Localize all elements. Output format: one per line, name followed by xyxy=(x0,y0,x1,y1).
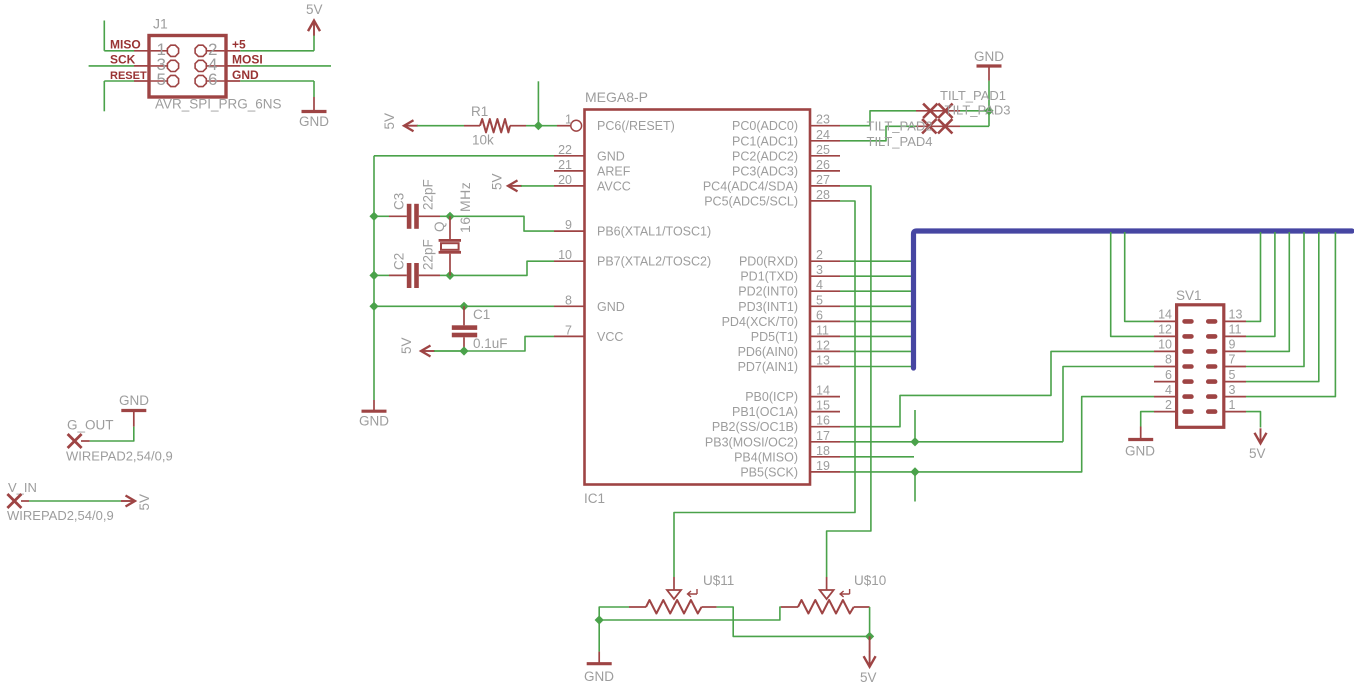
svg-text:20: 20 xyxy=(558,173,572,187)
wire C3 left xyxy=(374,215,389,217)
supply 5V arrow right V_IN xyxy=(126,496,136,507)
svg-text:C2: C2 xyxy=(392,253,407,270)
trimmer U$10 xyxy=(781,606,798,608)
junction dot C1 top xyxy=(459,302,468,311)
wire SV1 pin2 to gnd xyxy=(1141,412,1154,427)
svg-text:SV1: SV1 xyxy=(1176,288,1202,303)
trimmer U$11 xyxy=(629,606,646,608)
wire MISO horizontal xyxy=(104,50,134,52)
svg-text:5V: 5V xyxy=(306,2,323,17)
svg-text:GND: GND xyxy=(359,414,389,429)
svg-text:PD1(TXD): PD1(TXD) xyxy=(740,270,798,284)
svg-text:TILT_PAD3: TILT_PAD3 xyxy=(945,103,1011,118)
bus tap to SV1 pin12 xyxy=(1111,232,1154,336)
svg-text:Q: Q xyxy=(432,221,447,232)
svg-text:15: 15 xyxy=(816,399,830,413)
svg-text:9: 9 xyxy=(1229,338,1236,352)
wire pin22 GND horizontal xyxy=(374,155,554,157)
SV1 pin 14 stub xyxy=(1154,320,1177,322)
svg-text:5V: 5V xyxy=(1249,446,1266,461)
SV1 pin 5 stub xyxy=(1224,381,1246,383)
capacitor C1 xyxy=(463,306,465,325)
svg-text:V_IN: V_IN xyxy=(8,480,37,495)
wire U$10 right down xyxy=(869,607,871,636)
wire pin17 horizontal xyxy=(840,441,1063,443)
wire pin27 to U$10 wiper xyxy=(827,186,871,577)
ground symbol near J1 xyxy=(313,97,315,110)
svg-text:PC5(ADC5/SCL): PC5(ADC5/SCL) xyxy=(704,194,798,208)
svg-text:PB4(MISO): PB4(MISO) xyxy=(734,450,798,464)
J1 internal pin lines xyxy=(151,51,225,81)
svg-text:R1: R1 xyxy=(471,104,488,119)
svg-text:28: 28 xyxy=(816,188,830,202)
svg-text:TILT_PAD2: TILT_PAD2 xyxy=(867,119,933,134)
IC pin 15 stub xyxy=(810,411,840,413)
IC pin 21 stub xyxy=(554,170,584,172)
svg-text:5V: 5V xyxy=(860,670,877,685)
svg-text:0.1uF: 0.1uF xyxy=(473,336,508,351)
supply 5V arrow below C1 xyxy=(421,346,431,357)
svg-text:PC1(ADC1): PC1(ADC1) xyxy=(732,134,798,148)
svg-text:3: 3 xyxy=(816,263,823,277)
svg-text:6: 6 xyxy=(1165,368,1172,382)
wire G_OUT to gnd xyxy=(90,427,134,441)
SV1 pin 13 stub xyxy=(1224,320,1246,322)
IC pin 27 stub xyxy=(810,185,840,187)
svg-text:11: 11 xyxy=(816,323,829,337)
SV1 pin 8 stub xyxy=(1154,366,1177,368)
svg-text:4: 4 xyxy=(816,278,823,292)
svg-text:PB1(OC1A): PB1(OC1A) xyxy=(732,405,798,419)
svg-text:22: 22 xyxy=(558,143,572,157)
svg-text:2: 2 xyxy=(816,248,823,262)
svg-text:26: 26 xyxy=(816,158,830,172)
SV1 pads row 7 xyxy=(1182,409,1193,414)
junction dot pin19 xyxy=(910,467,919,476)
wire pin19 to SV1 pin4 xyxy=(840,397,1154,472)
SV1 pin 10 stub xyxy=(1154,350,1177,352)
IC pin 26 stub xyxy=(810,170,840,172)
SV1 pads row 4 xyxy=(1182,364,1193,369)
wire U$11 left to gnd xyxy=(599,607,629,652)
svg-text:GND: GND xyxy=(232,68,259,82)
svg-text:PD6(AIN0): PD6(AIN0) xyxy=(738,345,798,359)
svg-text:10: 10 xyxy=(558,248,572,262)
SV1 pads row 6 xyxy=(1182,394,1193,399)
wirepad TILT_PAD3 xyxy=(938,104,952,118)
bus tap to SV1 pin3 xyxy=(1246,232,1335,397)
wire stub below pin19 dot xyxy=(914,472,916,502)
wire C2 left xyxy=(374,274,389,276)
ground symbol above tilt pads (inverted) xyxy=(988,66,990,81)
J1 pin2 stub xyxy=(224,50,240,52)
junction dot C2 row xyxy=(369,271,378,280)
svg-text:GND: GND xyxy=(1125,444,1155,459)
svg-text:PB5(SCK): PB5(SCK) xyxy=(740,465,798,479)
IC pin 23 stub xyxy=(810,125,840,127)
svg-text:11: 11 xyxy=(1229,323,1242,337)
wire RESET vertical xyxy=(103,81,105,111)
svg-text:TILT_PAD1: TILT_PAD1 xyxy=(940,88,1006,103)
wire pin 4 to bus xyxy=(840,290,912,292)
ground symbol G_OUT (inverted) xyxy=(133,411,135,427)
wire SV1 pin1 to 5V xyxy=(1246,412,1261,428)
svg-text:WIREPAD2,54/0,9: WIREPAD2,54/0,9 xyxy=(66,449,173,464)
wire tilt row1 to gnd node xyxy=(960,110,989,112)
svg-text:12: 12 xyxy=(816,338,830,352)
wire SCK long horizontal xyxy=(89,65,134,67)
IC pin 5 stub xyxy=(810,305,840,307)
bus tap to SV1 pin14 xyxy=(1125,232,1154,321)
wirepad TILT_PAD4 xyxy=(938,119,952,133)
wire pin 2 to bus xyxy=(840,260,912,262)
SV1 pads row 1 xyxy=(1182,319,1193,324)
wire 5V to R1 xyxy=(417,125,464,127)
wire 5V row to pin7 xyxy=(434,336,554,351)
svg-text:PD0(RXD): PD0(RXD) xyxy=(739,255,798,269)
svg-text:GND: GND xyxy=(299,114,329,129)
wire C3 to crystal node xyxy=(440,215,450,217)
IC pin 19 stub xyxy=(810,471,840,473)
ground symbol below U$11 xyxy=(598,652,600,663)
tilt pad row2 red segment xyxy=(916,125,960,127)
wire 5V to pin20 AVCC xyxy=(521,185,554,187)
ground symbol below SV1 xyxy=(1140,427,1142,439)
svg-text:SCK: SCK xyxy=(110,53,136,67)
IC pin 1 stub with inversion circle xyxy=(557,125,570,127)
svg-text:9: 9 xyxy=(565,218,572,232)
IC pin 11 stub xyxy=(810,335,840,337)
IC left pin names xyxy=(597,119,711,344)
bus tap to SV1 pin11 xyxy=(1246,232,1275,336)
svg-text:PD4(XCK/T0): PD4(XCK/T0) xyxy=(722,315,798,329)
wire pin8 GND row xyxy=(374,305,554,307)
svg-text:IC1: IC1 xyxy=(584,491,605,506)
svg-text:5: 5 xyxy=(816,293,823,307)
IC pin 2 stub xyxy=(810,260,840,262)
wire +5 to 5V supply xyxy=(240,50,314,52)
svg-text:GND: GND xyxy=(119,393,149,408)
svg-text:13: 13 xyxy=(1229,308,1243,322)
svg-text:PC0(ADC0): PC0(ADC0) xyxy=(732,119,798,133)
IC pin 3 stub xyxy=(810,275,840,277)
SV1 pin 7 stub xyxy=(1224,366,1246,368)
svg-text:GND: GND xyxy=(597,149,625,163)
wire pin 6 to bus xyxy=(840,320,912,322)
wire vertical above R1 junction xyxy=(537,81,539,125)
svg-text:14: 14 xyxy=(816,384,830,398)
svg-text:MEGA8-P: MEGA8-P xyxy=(585,89,648,105)
svg-text:GND: GND xyxy=(597,300,625,314)
IC pin 10 stub xyxy=(554,260,584,262)
svg-text:AVR_SPI_PRG_6NS: AVR_SPI_PRG_6NS xyxy=(155,97,282,112)
IC pin 20 stub xyxy=(554,185,584,187)
bus tap to SV1 pin5 xyxy=(1246,232,1319,382)
svg-text:25: 25 xyxy=(816,143,830,157)
svg-text:+5: +5 xyxy=(232,38,246,52)
wire SV1 pin8 link xyxy=(1063,367,1154,442)
wire stub above pin17 dot xyxy=(914,410,916,442)
svg-text:PD3(INT1): PD3(INT1) xyxy=(738,300,798,314)
svg-text:RESET: RESET xyxy=(110,70,147,82)
tilt pad row1 red segment xyxy=(916,110,960,112)
wire pin 12 to bus xyxy=(840,350,912,352)
svg-text:24: 24 xyxy=(816,128,830,142)
svg-text:17: 17 xyxy=(816,429,830,443)
junction dot C3 row xyxy=(369,212,378,221)
svg-text:22pF: 22pF xyxy=(421,239,436,270)
wire pin28 to U$11 wiper xyxy=(674,201,855,577)
wire R1 to pin1 xyxy=(526,125,557,127)
IC pin 6 stub xyxy=(810,320,840,322)
crystal Q xyxy=(449,216,451,239)
svg-text:C1: C1 xyxy=(473,307,490,322)
wirepad V_IN pad xyxy=(7,494,21,508)
J1 pin6 stub xyxy=(224,80,240,82)
wire GND row to gnd symbol xyxy=(240,80,314,82)
svg-text:AVCC: AVCC xyxy=(597,179,631,193)
svg-text:U$10: U$10 xyxy=(854,573,886,588)
junction dot reset net xyxy=(534,121,543,130)
svg-text:PD2(INT0): PD2(INT0) xyxy=(738,285,798,299)
svg-text:GND: GND xyxy=(974,49,1004,64)
svg-text:5V: 5V xyxy=(399,337,414,354)
junction dot C1 bottom xyxy=(459,346,468,355)
wire U$11 right to 5V node xyxy=(717,607,870,636)
svg-text:G_OUT: G_OUT xyxy=(67,418,114,433)
svg-text:PC6(/RESET): PC6(/RESET) xyxy=(597,119,675,133)
junction dot pin17 xyxy=(910,437,919,446)
svg-text:VCC: VCC xyxy=(597,330,623,344)
bus tap to SV1 pin7 xyxy=(1246,232,1304,367)
resistor R1 xyxy=(464,125,480,127)
svg-text:3: 3 xyxy=(1229,383,1236,397)
wire pin18 stub xyxy=(840,456,914,458)
svg-text:8: 8 xyxy=(1165,353,1172,367)
wire MISO vertical xyxy=(103,21,105,51)
svg-text:PD5(T1): PD5(T1) xyxy=(751,330,798,344)
wire xtal2 to pin10 xyxy=(450,261,554,275)
svg-text:12: 12 xyxy=(1158,323,1172,337)
svg-text:6: 6 xyxy=(816,308,823,322)
wire pin16 to SV1 pin10 xyxy=(840,351,1154,426)
IC pin 16 stub xyxy=(810,426,840,428)
wire RESET horizontal xyxy=(104,80,134,82)
wire pin 11 to bus xyxy=(840,335,912,337)
svg-text:7: 7 xyxy=(1229,353,1236,367)
svg-text:6: 6 xyxy=(208,70,217,89)
wire C2 to crystal node xyxy=(440,274,450,276)
svg-text:C3: C3 xyxy=(392,193,407,210)
svg-text:13: 13 xyxy=(816,354,830,368)
wire gnd drop tilt xyxy=(988,81,990,111)
J1 pin numbers 1-6 xyxy=(157,40,218,89)
wire V_IN to 5V xyxy=(29,500,121,502)
SV1 pads row 2 xyxy=(1182,334,1193,339)
SV1 pin 6 stub xyxy=(1154,381,1177,383)
svg-text:J1: J1 xyxy=(153,16,168,32)
SV1 pin 3 stub xyxy=(1224,396,1246,398)
wire pin23 to tilt pads xyxy=(840,111,916,126)
bus wire blue xyxy=(914,231,1353,368)
wire GND left rail vertical xyxy=(373,156,375,400)
junction dot crystal top xyxy=(445,212,454,221)
svg-text:MISO: MISO xyxy=(110,38,141,52)
svg-text:5V: 5V xyxy=(382,113,397,130)
svg-text:21: 21 xyxy=(558,158,572,172)
IC pin 9 stub xyxy=(554,230,584,232)
svg-text:4: 4 xyxy=(1165,383,1172,397)
svg-text:5: 5 xyxy=(157,70,166,89)
svg-text:23: 23 xyxy=(816,113,830,127)
svg-text:10: 10 xyxy=(1158,338,1172,352)
wire pin 3 to bus xyxy=(840,275,912,277)
svg-text:7: 7 xyxy=(565,323,572,337)
SV1 pin 1 stub xyxy=(1224,411,1246,413)
svg-text:PB7(XTAL2/TOSC2): PB7(XTAL2/TOSC2) xyxy=(597,255,711,269)
connector J1 AVR_SPI_PRG_6NS body xyxy=(149,36,226,98)
wirepad G_OUT pad xyxy=(81,440,90,442)
svg-text:10k: 10k xyxy=(472,133,494,148)
IC pin 12 stub xyxy=(810,350,840,352)
junction dot pot gnd xyxy=(595,615,604,624)
svg-text:PB6(XTAL1/TOSC1): PB6(XTAL1/TOSC1) xyxy=(597,225,711,239)
supply 5V arrow top xyxy=(308,21,320,32)
svg-text:PD7(AIN1): PD7(AIN1) xyxy=(738,360,798,374)
J1 pin4 stub xyxy=(224,65,240,67)
J1 pin5 stub xyxy=(134,80,151,82)
junction dot tilt gnd xyxy=(984,106,993,115)
IC pin 25 stub xyxy=(810,155,840,157)
SV1 pin 2 stub xyxy=(1154,411,1177,413)
wire tilt row2 to gnd node xyxy=(960,125,989,127)
svg-text:16 MHz: 16 MHz xyxy=(457,182,473,233)
svg-text:27: 27 xyxy=(816,173,830,187)
svg-text:19: 19 xyxy=(816,459,830,473)
SV1 pads row 5 xyxy=(1182,379,1193,384)
supply 5V arrow left of R1 xyxy=(404,120,414,131)
svg-text:2: 2 xyxy=(1165,398,1172,412)
svg-text:TILT_PAD4: TILT_PAD4 xyxy=(867,134,933,149)
svg-text:5V: 5V xyxy=(490,173,505,190)
svg-text:16: 16 xyxy=(816,414,830,428)
svg-text:WIREPAD2,54/0,9: WIREPAD2,54/0,9 xyxy=(7,508,114,523)
wire pot gnd to U$10 left xyxy=(599,607,781,620)
svg-text:AREF: AREF xyxy=(597,164,631,178)
IC pin 17 stub xyxy=(810,441,840,443)
IC pin 18 stub xyxy=(810,456,840,458)
svg-text:1: 1 xyxy=(565,113,572,127)
svg-text:1: 1 xyxy=(1229,398,1236,412)
IC pin 22 stub xyxy=(554,155,584,157)
svg-text:PB2(SS/OC1B): PB2(SS/OC1B) xyxy=(712,420,798,434)
svg-text:PC4(ADC4/SDA): PC4(ADC4/SDA) xyxy=(703,179,798,193)
svg-text:8: 8 xyxy=(565,293,572,307)
junction dot pin8 row xyxy=(369,302,378,311)
svg-text:PC2(ADC2): PC2(ADC2) xyxy=(732,149,798,163)
ground symbol below left rail xyxy=(373,400,375,410)
IC pin 8 stub xyxy=(554,305,584,307)
supply 5V arrow AVCC xyxy=(508,180,518,191)
capacitor C3 xyxy=(389,215,407,217)
junction dot crystal bottom xyxy=(445,271,454,280)
wire pin24 to tilt pads xyxy=(840,126,916,141)
IC pin 28 stub xyxy=(810,200,840,202)
wire pin 5 to bus xyxy=(840,305,912,307)
bus tap to SV1 pin13 xyxy=(1246,232,1261,321)
supply 5V arrow below SV1 xyxy=(1255,433,1267,444)
wire pin 13 to bus xyxy=(840,366,912,368)
svg-text:GND: GND xyxy=(584,669,614,684)
SV1 pin 9 stub xyxy=(1224,350,1246,352)
bus tap to SV1 pin9 xyxy=(1246,232,1289,351)
connector SV1 body xyxy=(1177,305,1224,428)
svg-text:PB0(ICP): PB0(ICP) xyxy=(745,390,798,404)
supply 5V arrow below pots xyxy=(869,636,871,652)
wirepad TILT_PAD1 xyxy=(923,104,937,118)
capacitor C2 xyxy=(389,274,407,276)
svg-text:5: 5 xyxy=(1229,368,1236,382)
SV1 pin 4 stub xyxy=(1154,396,1177,398)
svg-text:U$11: U$11 xyxy=(703,573,734,588)
svg-text:5V: 5V xyxy=(137,494,152,511)
wire MOSI long horizontal xyxy=(240,65,331,67)
SV1 pin 12 stub xyxy=(1154,335,1177,337)
J1 pin3 stub xyxy=(134,65,151,67)
IC pin 4 stub xyxy=(810,290,840,292)
SV1 pads row 3 xyxy=(1182,349,1193,354)
J1 pin1 stub xyxy=(134,50,151,52)
svg-text:MOSI: MOSI xyxy=(232,53,263,67)
SV1 pin 11 stub xyxy=(1224,335,1246,337)
IC right pin names xyxy=(703,119,798,479)
J1 pin pads (octagons) xyxy=(167,45,206,86)
wirepad TILT_PAD2 xyxy=(922,119,936,133)
IC pin 13 stub xyxy=(810,366,840,368)
junction dot pot 5V xyxy=(865,632,874,641)
IC pin 24 stub xyxy=(810,140,840,142)
IC pin 7 stub xyxy=(554,335,584,337)
svg-text:22pF: 22pF xyxy=(421,179,436,210)
IC1 MEGA8-P body xyxy=(585,110,811,485)
svg-text:14: 14 xyxy=(1158,308,1172,322)
IC pin 14 stub xyxy=(810,396,840,398)
svg-text:PB3(MOSI/OC2): PB3(MOSI/OC2) xyxy=(705,435,798,449)
svg-text:PC3(ADC3): PC3(ADC3) xyxy=(732,164,798,178)
svg-text:18: 18 xyxy=(816,444,830,458)
wire xtal1 to pin9 xyxy=(450,216,554,231)
